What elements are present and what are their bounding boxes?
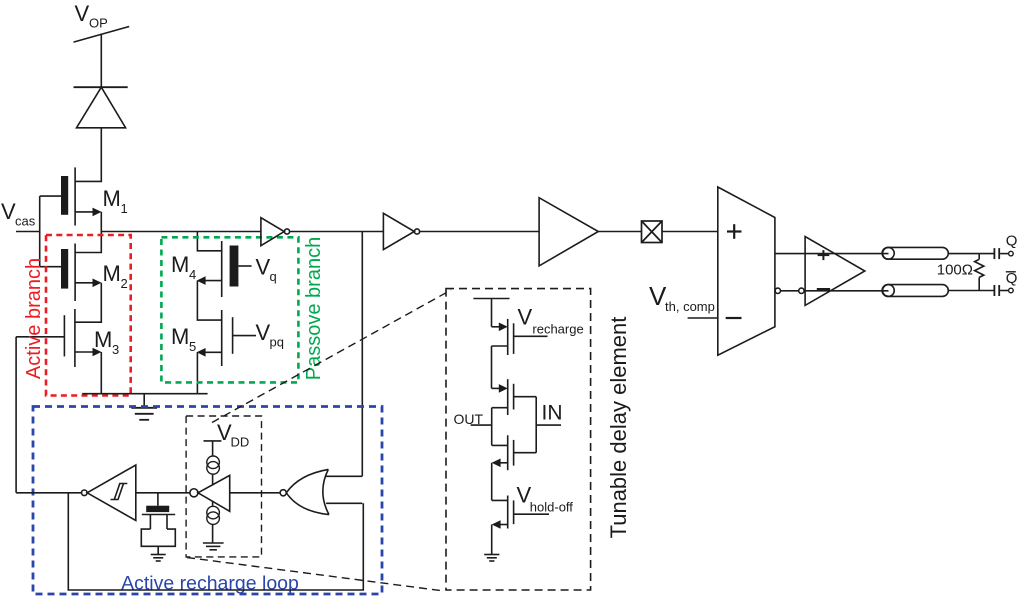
wire T1 drain to T2 source xyxy=(491,346,493,388)
wire M5 source to ground rail xyxy=(196,352,198,393)
wire Schmitt input node xyxy=(136,492,190,494)
magnification dashed line top xyxy=(212,290,451,423)
transmission line TL2 xyxy=(882,285,948,297)
label V_recharge xyxy=(518,305,584,337)
terminal Q-bar xyxy=(1009,288,1014,293)
wire U4 top output to top transmission line xyxy=(775,253,889,255)
label M2 xyxy=(103,261,128,291)
label M4 xyxy=(171,252,196,282)
svg-text:recharge: recharge xyxy=(532,322,583,337)
svg-text:V: V xyxy=(256,255,271,280)
label V_pq xyxy=(256,320,284,350)
resistor R1 100 ohm xyxy=(978,254,980,260)
ground delay element xyxy=(484,554,499,556)
svg-text:Q: Q xyxy=(1006,233,1017,250)
transistor T3 gate wire xyxy=(514,452,537,454)
current source I1 xyxy=(207,456,220,469)
transistor T4 drain lead xyxy=(492,499,508,501)
svg-text:M: M xyxy=(94,327,112,352)
svg-text:Active branch: Active branch xyxy=(23,258,45,379)
transistor T1 drain lead xyxy=(492,345,508,347)
transistor T1 channel xyxy=(507,319,509,355)
label V_DD xyxy=(217,420,249,450)
wire M1 source down to output node xyxy=(100,212,102,232)
diode D1 (SPAD) triangle xyxy=(77,87,126,128)
wire node to M2 drain xyxy=(75,232,101,253)
NOR gate U8 bubble xyxy=(280,490,286,496)
transistor M1 source lead with arrow xyxy=(75,211,97,213)
wire mixer to comparator U4 plus input xyxy=(662,231,718,233)
red dashed box Active branch xyxy=(46,235,131,396)
transistor T3 source lead with arrow xyxy=(496,462,508,464)
bubble at U4 inverted output xyxy=(775,288,780,293)
NOR top input wire xyxy=(326,475,362,477)
inner dashed box around current-starved inverter xyxy=(186,416,261,557)
wire U7 to current source I2 xyxy=(212,501,214,506)
wire M4 source to M5 drain xyxy=(197,281,221,321)
wire junction down to NOR top input xyxy=(361,232,363,477)
transistor M3 gate wire xyxy=(16,336,64,338)
current source I2 xyxy=(207,506,220,519)
svg-text:DD: DD xyxy=(231,435,250,450)
transistor M1 gate wire xyxy=(40,195,61,197)
blue dashed box Active recharge loop xyxy=(33,407,382,595)
wire T4 source to ground xyxy=(491,525,493,555)
wire from V_OP to diode xyxy=(100,34,102,88)
svg-text:V: V xyxy=(256,320,271,345)
transistor T3 gate line xyxy=(513,440,515,466)
svg-text:Passove branch: Passove branch xyxy=(303,237,325,380)
NOR gate U8 body xyxy=(286,469,328,492)
wire U1 to inverter U2 xyxy=(290,231,384,233)
current-starved inverter U7 body xyxy=(198,475,230,511)
transistor M4 gate bar xyxy=(230,246,239,287)
label M1 xyxy=(103,186,128,216)
label V_th,comp xyxy=(649,281,715,314)
wire V_DD to current source I1 xyxy=(212,441,214,456)
wire OUT bracket T2 drain to T3 drain xyxy=(491,408,493,446)
svg-text:th, comp: th, comp xyxy=(665,299,715,314)
V_DD stub xyxy=(204,440,222,442)
delay element top rail xyxy=(473,298,509,300)
wire recharge loop bottom path to NOR input xyxy=(68,493,363,590)
magnification dashed line bottom xyxy=(187,558,444,592)
transistor T3 channel xyxy=(507,435,509,470)
driver U5 body xyxy=(805,237,865,306)
wire M3 source to ground rail xyxy=(100,352,102,394)
transistor T2 gate wire xyxy=(514,396,537,398)
transistor M5 source lead with arrow xyxy=(202,351,222,353)
node V_cas label xyxy=(1,199,36,229)
inverter U1 xyxy=(261,218,284,246)
driver U5 plus sign xyxy=(818,254,830,256)
transistor T2 source lead with arrow xyxy=(492,387,504,389)
node V_OP label xyxy=(75,1,108,31)
Schmitt trigger hysteresis symbol xyxy=(111,484,124,500)
wire T3 source to T4 drain xyxy=(491,463,493,501)
svg-text:Tunable delay element: Tunable delay element xyxy=(606,317,631,539)
capacitor C1 xyxy=(993,248,995,259)
svg-text:3: 3 xyxy=(112,342,119,357)
transistor M4 gate wire xyxy=(238,265,251,267)
transistor T1 gate line xyxy=(513,323,515,354)
transistor T2 channel xyxy=(507,379,509,415)
transistor M3 channel xyxy=(74,309,76,367)
transistor M2 source lead with arrow xyxy=(75,282,97,284)
svg-text:2: 2 xyxy=(121,276,128,291)
transistor M3 source lead with arrow xyxy=(75,351,97,353)
transistor T2 drain lead xyxy=(492,407,508,409)
wire U7 input from NOR output xyxy=(230,492,280,494)
label V_hold-off xyxy=(517,483,574,515)
transistor M2 gate bar xyxy=(61,249,68,289)
svg-text:OUT: OUT xyxy=(454,411,484,427)
dashed box Tunable delay element xyxy=(446,289,591,590)
wire I1 to inverter U7 xyxy=(212,474,214,485)
transistor M4 source lead with arrow xyxy=(202,280,222,282)
svg-text:V: V xyxy=(75,1,90,26)
terminal Q xyxy=(1009,251,1014,256)
wire TL1 to output cap xyxy=(948,253,993,255)
transmission line TL1 xyxy=(882,247,948,259)
label M5 xyxy=(171,324,196,354)
inverter U2 xyxy=(383,213,414,249)
transistor T1 gate wire V_recharge xyxy=(514,335,548,337)
Schmitt trigger U6 body xyxy=(87,465,136,521)
wire V_th,comp to U4 minus input xyxy=(688,317,718,319)
svg-text:M: M xyxy=(171,324,189,349)
svg-text:100Ω: 100Ω xyxy=(937,262,973,279)
svg-text:M: M xyxy=(103,261,121,286)
svg-text:V: V xyxy=(1,199,16,224)
driver U5 minus sign xyxy=(817,288,830,290)
capacitor C2 xyxy=(993,285,995,296)
transistor T4 channel xyxy=(507,496,509,529)
wire V_cas xyxy=(16,231,40,233)
MOS capacitor C3 xyxy=(157,493,159,506)
diode D1 (SPAD) cathode bar xyxy=(74,86,128,88)
svg-text:pq: pq xyxy=(270,335,284,350)
wire U4 inverted output xyxy=(781,290,799,292)
svg-text:5: 5 xyxy=(189,339,196,354)
transistor M5 gate line xyxy=(232,317,234,354)
transistor T3 drain lead xyxy=(492,444,508,446)
svg-text:OP: OP xyxy=(89,16,108,31)
svg-text:V: V xyxy=(518,305,533,330)
transistor T4 gate line xyxy=(513,500,515,524)
wire M2 source to M3 drain xyxy=(75,283,101,322)
wire V_cas vertical to M1 and M2 gates xyxy=(39,196,41,267)
ground under I2 xyxy=(203,542,224,544)
transistor M1 gate bar xyxy=(61,176,68,215)
svg-text:Active recharge loop: Active recharge loop xyxy=(121,573,299,595)
wire I2 to ground xyxy=(212,525,214,544)
comparator U4 minus sign xyxy=(726,317,742,319)
ground symbol main xyxy=(143,394,145,408)
transistor M5 channel xyxy=(221,310,223,366)
transistor T1 source lead with arrow xyxy=(492,326,504,328)
comparator U4 plus sign xyxy=(727,230,742,232)
wire TL2 to output cap xyxy=(948,290,993,292)
wire OUT xyxy=(471,424,492,426)
transistor M1 channel xyxy=(74,167,76,225)
bubble at U5 inverting input xyxy=(799,288,804,293)
wire break slash at V_OP xyxy=(74,27,130,43)
wire diode to M1 drain xyxy=(75,128,101,182)
label V_q xyxy=(256,255,277,285)
transistor M4 channel xyxy=(221,241,223,297)
wire U3 to mixer xyxy=(598,231,641,233)
ground under C3 xyxy=(157,546,159,554)
svg-text:Q: Q xyxy=(1006,270,1017,287)
svg-text:M: M xyxy=(103,186,121,211)
mixer X box xyxy=(642,221,663,243)
transistor T2 gate line xyxy=(513,384,515,410)
buffer U3 xyxy=(539,198,598,266)
green dashed box Passove branch xyxy=(161,237,298,382)
svg-text:q: q xyxy=(270,269,277,284)
wire main signal line to inverter U1 xyxy=(101,231,261,233)
transistor M2 channel xyxy=(74,244,76,302)
svg-text:hold-off: hold-off xyxy=(530,500,574,515)
svg-text:cas: cas xyxy=(15,214,36,229)
ground rail xyxy=(82,393,207,395)
svg-text:4: 4 xyxy=(189,267,196,282)
Schmitt trigger U6 bubble xyxy=(82,490,88,496)
svg-text:M: M xyxy=(171,252,189,277)
comparator U4 body xyxy=(718,187,775,355)
wire gate tie T2-T3 xyxy=(535,397,537,453)
wire main node to M4 drain xyxy=(197,232,221,251)
transistor T4 source lead with arrow xyxy=(496,524,508,526)
svg-text:IN: IN xyxy=(542,402,563,425)
transistor T4 gate wire V_hold-off xyxy=(514,513,549,515)
wire rail to T1 source xyxy=(491,299,493,327)
transistor M2 gate wire xyxy=(40,266,61,268)
transistor M5 gate wire xyxy=(233,335,256,337)
NOR bottom input wire xyxy=(326,502,362,504)
label M3 xyxy=(94,327,119,357)
wire to bottom transmission line xyxy=(804,290,888,292)
wire U2 to buffer U3 xyxy=(420,231,539,233)
wire feedback from Schmitt output up to M3 gate xyxy=(15,337,17,493)
svg-text:1: 1 xyxy=(121,201,128,216)
wire IN xyxy=(536,424,561,426)
transistor M3 gate line xyxy=(63,315,65,356)
